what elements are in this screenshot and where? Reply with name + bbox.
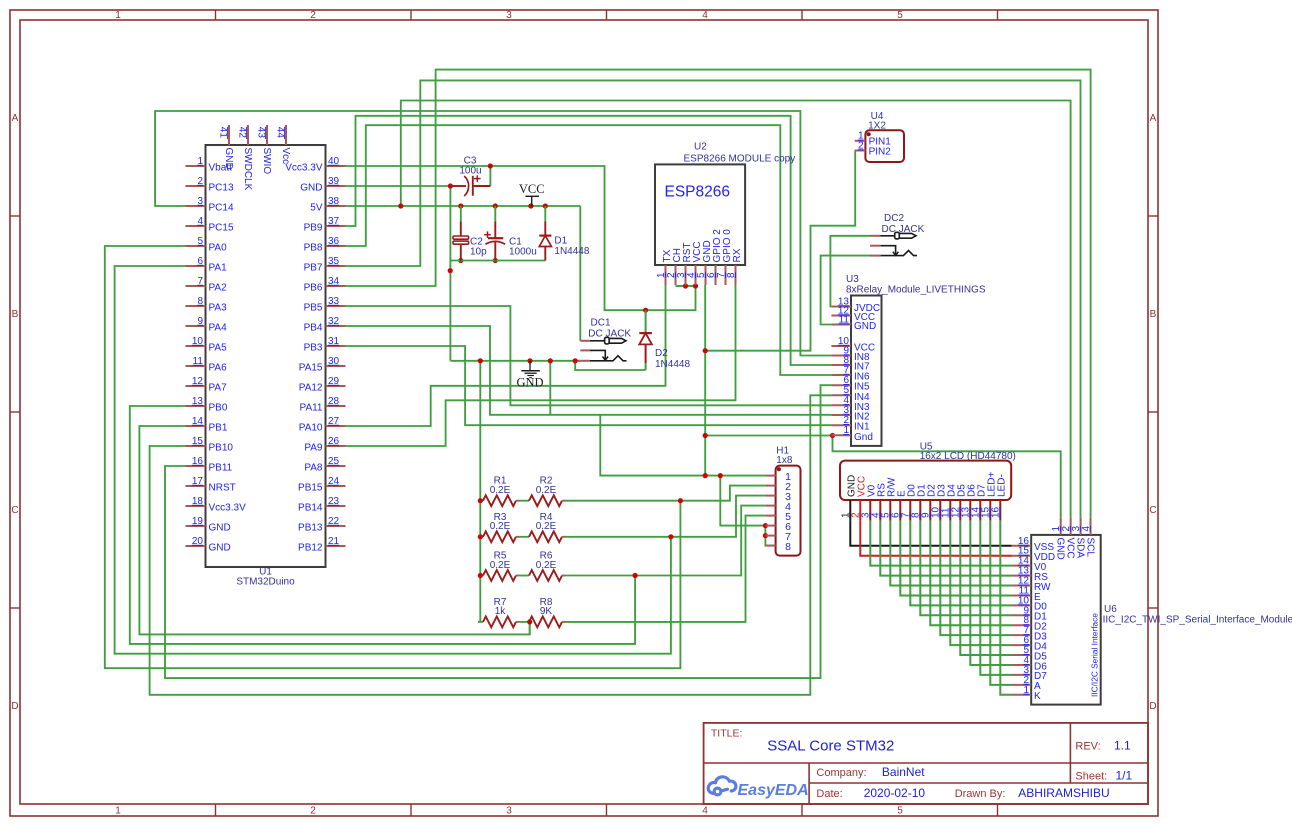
svg-text:35: 35	[328, 256, 340, 267]
H1 pin 3	[765, 495, 775, 497]
U5 pin 3 (V0)	[869, 500, 871, 521]
U2 pin 7 (GPIO 0)	[725, 265, 727, 285]
U1 pin 9 (PA4)	[186, 325, 206, 327]
wire U5 pin11 to U6 pin6	[950, 521, 1011, 646]
wire net DC2 gnd: DC2 jack sleeve to U3 GND pin11	[821, 256, 870, 325]
U1 pin 33 (PB5)	[326, 305, 346, 307]
wire net PB1: U1 pin14 to R7/R8 junction	[139, 426, 529, 634]
U1 pin 40 (Vcc3.3V)	[326, 165, 346, 167]
wire caps bottom link	[450, 260, 545, 262]
svg-text:0.2E: 0.2E	[490, 485, 511, 496]
U1 pin 36 (PB8)	[326, 245, 346, 247]
svg-text:1x8: 1x8	[776, 455, 793, 466]
svg-text:18: 18	[192, 496, 204, 507]
U1 pin 43 (SWIO)	[266, 125, 268, 145]
wire R1-R2 link	[519, 500, 529, 502]
svg-text:PB6: PB6	[304, 283, 323, 294]
U3 pin 9 (IN8)	[831, 355, 851, 357]
wire U5 pin13 to U6 pin4	[970, 521, 1011, 665]
svg-text:9K: 9K	[540, 606, 553, 617]
svg-text:SDA: SDA	[1074, 538, 1085, 559]
svg-text:1N4448: 1N4448	[655, 359, 690, 370]
svg-text:Date:: Date:	[816, 788, 842, 800]
U1 pin 22 (PB13)	[326, 525, 346, 527]
svg-text:VCC: VCC	[1064, 538, 1075, 559]
U3 pin 8 (IN7)	[831, 364, 851, 366]
svg-text:Gnd: Gnd	[854, 432, 873, 443]
U6 pin 1 (K)	[1012, 694, 1032, 696]
U1 pin 28 (PA11)	[326, 405, 346, 407]
wire net GND: vertical C3-left down to GND rail	[449, 186, 451, 361]
wire net GND chain: branch to U4 PIN2	[705, 151, 855, 351]
wire U5 pin16 to U6 pin1	[1000, 521, 1011, 695]
U6 pin 7 (D3)	[1012, 634, 1032, 636]
wire R5-R6 link	[519, 575, 529, 577]
U6 pin 2 (A)	[1012, 684, 1032, 686]
U5 pin 13 (D6)	[969, 500, 971, 521]
svg-text:5: 5	[197, 236, 203, 247]
wire net GND chain: H1 pin6 to pin7 to pin8 link	[765, 526, 775, 546]
wire U5 pin14 to U6 pin3	[980, 521, 1011, 675]
U5 pin 6 (E)	[899, 500, 901, 521]
svg-text:7: 7	[197, 276, 203, 287]
svg-text:16: 16	[990, 506, 1001, 518]
svg-text:PC15: PC15	[209, 223, 234, 234]
wire net GND chain: branch to U3 Gnd pin1	[705, 435, 831, 437]
svg-text:8: 8	[726, 272, 737, 278]
H1 pin 2	[765, 485, 775, 487]
U2 pin 6 (GPIO 2)	[715, 265, 717, 285]
svg-text:4: 4	[702, 10, 708, 21]
U1 pin 25 (PA8)	[326, 465, 346, 467]
svg-text:2: 2	[310, 10, 316, 21]
U6 pin 16 (VSS)	[1012, 545, 1032, 547]
svg-text:10: 10	[192, 336, 204, 347]
wire net PB0: U1 pin13 to R6 output	[130, 406, 635, 644]
svg-text:1X2: 1X2	[868, 121, 886, 132]
U1 pin 15 (PB10)	[186, 445, 206, 447]
svg-text:A: A	[1150, 113, 1157, 124]
U2 ESP8266 module body	[655, 164, 745, 265]
svg-text:3: 3	[197, 196, 203, 207]
wire net GND chain: U3 Gnd to U6 GND pin	[833, 436, 1061, 518]
H1 pin 8	[765, 545, 775, 547]
U5 16x2 LCD header body	[840, 461, 1011, 500]
svg-text:PB10: PB10	[209, 443, 234, 454]
svg-text:D: D	[11, 701, 18, 712]
svg-text:0.2E: 0.2E	[536, 485, 557, 496]
svg-text:PB3: PB3	[304, 343, 323, 354]
U5 pin 9 (D2)	[929, 500, 931, 521]
U3 pin 10 (VCC)	[831, 345, 851, 347]
resistor R6	[529, 570, 562, 581]
svg-text:GND: GND	[300, 183, 322, 194]
svg-text:SSAL Core STM32: SSAL Core STM32	[767, 738, 894, 755]
svg-text:24: 24	[328, 476, 340, 487]
svg-text:PB13: PB13	[298, 523, 323, 534]
U5 pin 15 (LED+)	[989, 500, 991, 521]
U1 pin 32 (PB4)	[326, 325, 346, 327]
svg-text:16x2 LCD (HD44780): 16x2 LCD (HD44780)	[920, 451, 1016, 462]
svg-text:1: 1	[115, 10, 121, 21]
svg-text:Vcc3.3V: Vcc3.3V	[209, 503, 247, 514]
svg-text:PB1: PB1	[209, 423, 228, 434]
svg-text:DC2: DC2	[884, 213, 904, 224]
H1 1x8 header body	[776, 466, 801, 556]
svg-text:ESP8266 MODULE copy: ESP8266 MODULE copy	[684, 154, 796, 165]
H1 pin 6	[765, 525, 775, 527]
svg-text:43: 43	[255, 127, 266, 139]
H1 pin 7	[765, 535, 775, 537]
U5 pin 4 (RS)	[879, 500, 881, 521]
svg-text:44: 44	[274, 127, 285, 139]
U1 pin 37 (PB9)	[326, 225, 346, 227]
svg-text:PA10: PA10	[299, 423, 323, 434]
U1 pin 17 (NRST)	[186, 485, 206, 487]
svg-text:Company:: Company:	[816, 767, 866, 779]
svg-text:10p: 10p	[470, 246, 487, 257]
svg-text:VCC: VCC	[519, 182, 545, 196]
wire net DC2 plus: DC2 jack tip to U3 JVDC	[830, 236, 870, 307]
EasyEDA logo	[708, 777, 736, 795]
U5 pin 1 (GND)	[849, 500, 851, 521]
U6 pin 15 (VDD)	[1012, 555, 1032, 557]
svg-text:1k: 1k	[495, 606, 507, 617]
wire R7-R8 link	[519, 621, 529, 623]
wire net R3R4 mid: R4 to H1 pin3	[565, 496, 765, 537]
svg-text:1: 1	[1023, 685, 1029, 696]
svg-text:20: 20	[192, 536, 204, 547]
frame column ticks top	[215, 10, 217, 20]
wire net GND: C3 right plate riser to pin40 net crossing	[489, 166, 491, 186]
svg-text:PA2: PA2	[209, 283, 228, 294]
svg-text:PA11: PA11	[300, 403, 323, 414]
svg-text:28: 28	[328, 396, 340, 407]
svg-text:RX: RX	[732, 248, 743, 262]
svg-text:8xRelay_Module_LIVETHINGS: 8xRelay_Module_LIVETHINGS	[846, 285, 986, 296]
wire R3-R4 link	[519, 536, 529, 538]
svg-text:PB9: PB9	[304, 223, 323, 234]
svg-text:40: 40	[328, 156, 340, 167]
svg-text:Drawn By:: Drawn By:	[955, 788, 1006, 800]
H1 pin 5	[765, 515, 775, 517]
U1 pin 7 (PA2)	[186, 285, 206, 287]
U2 pin 8 (RX)	[735, 265, 737, 285]
svg-text:26: 26	[328, 436, 340, 447]
svg-text:4: 4	[197, 216, 203, 227]
svg-text:3: 3	[506, 10, 512, 21]
U1 pin 27 (PA10)	[326, 425, 346, 427]
U1 pin 18 (Vcc3.3V)	[186, 505, 206, 507]
wire net GND: horizontal rail with ground symbol	[450, 360, 577, 362]
svg-text:PA12: PA12	[299, 383, 323, 394]
svg-text:1.1: 1.1	[1114, 739, 1131, 753]
U3 pin 3 (IN2)	[831, 414, 851, 416]
svg-text:1/1: 1/1	[1116, 769, 1133, 783]
wire net 5V: riser to U6 VCC feed	[401, 101, 1071, 518]
wire net PA9: U1 pin26 to ESP8266 RX	[346, 285, 736, 446]
svg-text:ESP8266: ESP8266	[665, 184, 731, 201]
ground symbol GND	[529, 361, 531, 371]
wire ESP8266 CH-RST-VCC tie	[676, 285, 696, 287]
U2 pin 5 (GND)	[705, 265, 707, 285]
U5 pin 14 (D7)	[979, 500, 981, 521]
wire U5 pin9 to U6 pin8	[930, 521, 1011, 626]
wire net GND: U1 pin39 to C3	[346, 185, 451, 187]
wire net PA0: U1 pin5 to R2 output	[105, 246, 681, 668]
resistor R8	[529, 617, 562, 628]
U1 pin 29 (PA12)	[326, 385, 346, 387]
svg-text:PC14: PC14	[209, 203, 234, 214]
svg-text:TITLE:: TITLE:	[711, 728, 743, 740]
wire net PB6: U1 pin34 to U6 SCL	[346, 70, 1091, 518]
U1 pin 6 (PA1)	[186, 265, 206, 267]
U1 pin 20 (GND)	[186, 545, 206, 547]
svg-text:PA9: PA9	[304, 443, 323, 454]
svg-text:4: 4	[1081, 526, 1092, 532]
U6 pin 9 (D1)	[1012, 614, 1032, 616]
svg-text:34: 34	[328, 276, 340, 287]
svg-text:42: 42	[236, 127, 247, 139]
U1 pin 10 (PA5)	[186, 345, 206, 347]
resistor R4	[529, 531, 562, 542]
resistor R7	[483, 617, 516, 628]
svg-text:PB15: PB15	[298, 483, 323, 494]
wire U5 pin15 to U6 pin2	[990, 521, 1011, 685]
svg-text:1000u: 1000u	[509, 246, 537, 257]
svg-text:REV:: REV:	[1075, 741, 1100, 753]
frame row ticks left	[10, 215, 20, 217]
wire net PB5: U1 pin33 to U3 IN3	[346, 306, 832, 405]
wire net R1R2 mid: R2 to H1 pin2	[565, 486, 765, 501]
svg-text:D2: D2	[655, 348, 668, 359]
U1 pin 30 (PA15)	[326, 365, 346, 367]
U1 pin 35 (PB7)	[326, 265, 346, 267]
svg-text:PB0: PB0	[209, 403, 228, 414]
svg-text:23: 23	[328, 496, 340, 507]
svg-text:PIN2: PIN2	[869, 146, 892, 157]
wire net PA10: U1 pin27 to ESP8266 TX	[346, 285, 666, 426]
capacitor C1 (polarized)	[494, 206, 496, 221]
wire net GND: DC1 sleeve drop to D2 anode	[575, 361, 645, 370]
resistor R1	[483, 495, 516, 506]
U6 pin 2 (VCC)	[1070, 517, 1072, 535]
svg-text:B: B	[1150, 309, 1157, 320]
junction dots	[488, 163, 493, 168]
U1 pin 19 (GND)	[186, 525, 206, 527]
svg-text:12: 12	[192, 376, 204, 387]
wire net PB4: U1 pin32 to U3 IN2	[346, 326, 832, 415]
U5 pin 11 (D4)	[949, 500, 951, 521]
diode D1 1N4448	[544, 206, 546, 222]
svg-text:LED-: LED-	[997, 474, 1008, 497]
svg-text:30: 30	[328, 356, 340, 367]
wire net GND: stub below C-bottom junction	[549, 361, 551, 415]
U2 pin 1 (TX)	[665, 265, 667, 285]
svg-text:GND: GND	[209, 543, 231, 554]
wire net PB8: U1 pin36 to U3 IN6	[346, 125, 832, 375]
U6 pin 8 (D2)	[1012, 624, 1032, 626]
wire R3 left link	[478, 536, 483, 538]
svg-text:1N4448: 1N4448	[554, 246, 589, 257]
svg-text:PB11: PB11	[209, 463, 233, 474]
svg-text:31: 31	[328, 336, 340, 347]
svg-text:SWIO: SWIO	[261, 148, 272, 175]
U6 pin 13 (RS)	[1012, 575, 1032, 577]
svg-text:SWDCLK: SWDCLK	[242, 148, 253, 191]
U6 pin 6 (D4)	[1012, 644, 1032, 646]
U6 pin 1 (GND)	[1060, 517, 1062, 535]
svg-text:2020-02-10: 2020-02-10	[864, 786, 926, 800]
U1 pin 39 (GND)	[326, 185, 346, 187]
svg-text:5: 5	[897, 10, 903, 21]
wire net PB7: U1 pin35 to U6 SDA	[346, 80, 1081, 517]
svg-text:PB12: PB12	[298, 543, 323, 554]
svg-text:11: 11	[839, 314, 850, 325]
svg-text:15: 15	[192, 436, 204, 447]
U1 pin 2 (PC13)	[186, 185, 206, 187]
U1 pin 31 (PB3)	[326, 345, 346, 347]
U3 pin 2 (IN1)	[831, 424, 851, 426]
svg-text:32: 32	[328, 316, 340, 327]
U4 1X2 header body	[865, 130, 904, 162]
svg-text:0.2E: 0.2E	[536, 560, 557, 571]
U1 pin 24 (PB15)	[326, 485, 346, 487]
U5 pin 5 (R/W)	[889, 500, 891, 521]
U1 pin 5 (PA0)	[186, 245, 206, 247]
U1 pin 23 (PB14)	[326, 505, 346, 507]
resistor R2	[529, 495, 562, 506]
U6 pin 14 (V0)	[1012, 565, 1032, 567]
svg-text:GND: GND	[516, 376, 543, 390]
svg-text:PA4: PA4	[209, 323, 228, 334]
U1 pin 42 (SWDCLK)	[247, 125, 249, 145]
U3 pin 5 (IN4)	[831, 394, 851, 396]
U3 pin 13 (JVDC)	[831, 306, 851, 308]
svg-text:1: 1	[197, 156, 203, 167]
wire U5 pin1 to U6 pin16	[850, 521, 1011, 546]
svg-text:PC13: PC13	[209, 183, 234, 194]
wire R7R8 junction drop	[529, 622, 531, 635]
wire net R5R6 mid: R6 to H1 pin4	[565, 506, 765, 576]
title block dividers	[704, 762, 1148, 764]
svg-text:2: 2	[858, 140, 864, 151]
U5 pin 10 (D3)	[939, 500, 941, 521]
svg-text:B: B	[12, 309, 19, 320]
svg-text:BainNet: BainNet	[882, 765, 925, 779]
diode D2 1N4448	[645, 310, 647, 333]
svg-text:3: 3	[506, 806, 512, 817]
U1 pin 13 (PB0)	[186, 405, 206, 407]
U3 pin 1 (Gnd)	[831, 434, 851, 436]
svg-text:8: 8	[197, 296, 203, 307]
wire net GND: resistor left rail	[479, 361, 481, 622]
svg-text:C: C	[11, 505, 18, 516]
svg-text:100u: 100u	[459, 165, 481, 176]
svg-text:37: 37	[328, 216, 340, 227]
svg-text:EasyEDA: EasyEDA	[738, 782, 809, 799]
wire net PB4: branch to H1 pin1 / GND chain	[600, 415, 765, 476]
svg-text:PB7: PB7	[304, 263, 323, 274]
U1 pin 26 (PA9)	[326, 445, 346, 447]
wire net PA1: U1 pin6 to R4 output	[115, 266, 671, 654]
svg-text:Vcc: Vcc	[280, 148, 291, 165]
svg-text:GND: GND	[223, 148, 234, 170]
U2 pin 2 (CH)	[675, 265, 677, 285]
capacitor C3 (polarized)	[450, 185, 466, 187]
svg-text:D: D	[1149, 701, 1156, 712]
svg-text:PA6: PA6	[209, 363, 228, 374]
U6 pin 10 (D0)	[1012, 604, 1032, 606]
wire net PB11: U1 pin16 to U3 IN5	[165, 385, 831, 678]
svg-text:11: 11	[193, 356, 204, 367]
svg-text:PA0: PA0	[209, 243, 228, 254]
U5 pin 12 (D5)	[959, 500, 961, 521]
wire U5 pin2 to U6 pin15	[860, 521, 1011, 556]
svg-text:36: 36	[328, 236, 340, 247]
svg-text:PA5: PA5	[209, 343, 228, 354]
svg-text:Sheet:: Sheet:	[1075, 771, 1107, 783]
svg-text:STM32Duino: STM32Duino	[236, 577, 295, 588]
svg-text:U6: U6	[1104, 604, 1117, 615]
svg-text:U3: U3	[846, 274, 859, 285]
wire net PB3: U1 pin31 to U3 IN1	[346, 346, 832, 425]
svg-text:D1: D1	[554, 236, 567, 247]
svg-text:1: 1	[843, 425, 849, 436]
wire net 5V: drop to DC1 center pin	[579, 206, 581, 341]
U5 pin 16 (LED-)	[999, 500, 1001, 521]
title block outer	[704, 723, 1148, 804]
svg-text:27: 27	[328, 416, 340, 427]
svg-text:C: C	[1149, 505, 1156, 516]
svg-text:PB5: PB5	[304, 303, 323, 314]
U1 pin 12 (PA7)	[186, 385, 206, 387]
svg-text:39: 39	[328, 176, 340, 187]
U4 pin 2 (PIN2)	[855, 150, 866, 152]
svg-text:NRST: NRST	[209, 483, 236, 494]
svg-text:41: 41	[217, 127, 228, 139]
svg-text:13: 13	[192, 396, 204, 407]
svg-text:GND: GND	[1055, 538, 1066, 560]
svg-text:ABHIRAMSHIBU: ABHIRAMSHIBU	[1018, 786, 1109, 800]
U1 pin 38 (5V)	[326, 205, 346, 207]
U1 pin 14 (PB1)	[186, 425, 206, 427]
wire net PB9: U1 pin37 to U3 IN7	[346, 116, 832, 365]
wire net R7R8 out: R8 to H1 pin5	[565, 516, 765, 622]
svg-text:PA8: PA8	[304, 463, 323, 474]
svg-text:14: 14	[192, 416, 204, 427]
U2 pin 3 (RST)	[685, 265, 687, 285]
svg-text:PB14: PB14	[298, 503, 323, 514]
svg-text:25: 25	[328, 456, 340, 467]
U1 pin 11 (PA6)	[186, 365, 206, 367]
resistor R3	[483, 531, 516, 542]
U6 pin 3 (D7)	[1012, 674, 1032, 676]
H1 pin1 origin marker	[777, 467, 781, 471]
svg-text:4: 4	[702, 806, 708, 817]
wire U5 pin8 to U6 pin9	[920, 521, 1011, 616]
svg-text:GND: GND	[209, 523, 231, 534]
U1 pin 3 (PC14)	[186, 205, 206, 207]
svg-text:K: K	[1034, 691, 1041, 702]
U6 pin 3 (SDA)	[1080, 517, 1082, 535]
svg-text:PB8: PB8	[304, 243, 323, 254]
wire net 5V: U1 pin38 rail	[346, 205, 581, 207]
H1 pin 1	[765, 475, 775, 477]
wire R1 left link	[478, 500, 483, 502]
wire net GND chain: branch to H1 pins 6-7-8	[720, 476, 765, 526]
svg-text:IIC/I2C Serial Interface: IIC/I2C Serial Interface	[1089, 613, 1099, 697]
